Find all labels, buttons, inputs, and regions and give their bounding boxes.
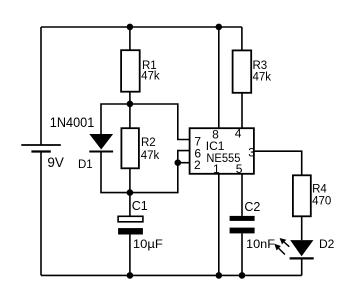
wire pin 3 net <box>254 151 302 175</box>
capacitor C2 plates <box>230 216 255 234</box>
svg-text:2: 2 <box>194 158 201 172</box>
LED D2 <box>290 240 314 258</box>
wire top rail <box>41 26 242 28</box>
wire pin 2 lead <box>178 162 190 164</box>
node junction bottom pin1 <box>216 272 223 279</box>
wire C1 bottom lead <box>129 235 131 276</box>
node junction R2/C1 <box>127 189 134 196</box>
wire R1 bottom lead <box>129 92 131 104</box>
node junction R1/R2/pin7 <box>127 101 134 108</box>
svg-text:R2: R2 <box>141 137 156 149</box>
wire bottom rail <box>41 274 302 276</box>
svg-text:1: 1 <box>213 162 220 176</box>
wire pin 5 / C2 top lead <box>241 174 243 216</box>
wire pin 1 lead <box>218 174 220 276</box>
svg-text:470: 470 <box>312 195 331 207</box>
wire C1 top lead <box>129 193 131 217</box>
wire D2 bottom lead <box>301 258 303 275</box>
wire R3 top lead <box>241 27 243 50</box>
svg-text:9V: 9V <box>47 154 64 170</box>
svg-text:10µF: 10µF <box>133 237 163 251</box>
svg-text:C1: C1 <box>132 199 148 213</box>
resistor R3 <box>233 50 252 92</box>
LED D2 emission arrow 2 <box>274 244 285 255</box>
resistor R4 <box>293 175 311 216</box>
svg-text:D2: D2 <box>319 237 335 251</box>
node junction bottom C2 <box>239 272 246 279</box>
svg-text:C2: C2 <box>244 200 260 214</box>
svg-text:3: 3 <box>248 146 255 160</box>
wire pin 8 lead <box>218 27 220 128</box>
node junction bottom C1 <box>127 272 134 279</box>
svg-text:47k: 47k <box>141 150 160 162</box>
svg-text:47k: 47k <box>253 71 272 83</box>
svg-text:4: 4 <box>235 127 242 141</box>
wire C2 bottom lead <box>241 233 243 275</box>
wire R2 top lead <box>129 104 131 128</box>
resistor R1 <box>121 50 140 91</box>
svg-text:47k: 47k <box>141 71 160 83</box>
wire R2 bottom lead <box>129 168 131 192</box>
wire R4 to D2 <box>301 216 303 240</box>
wire node pin7 net <box>101 104 190 140</box>
op-amp/IC U1 box NE555 <box>190 128 254 174</box>
LED D2 emission arrow 1 <box>280 238 290 247</box>
svg-text:10nF: 10nF <box>246 237 275 251</box>
resistor R2 <box>121 128 138 168</box>
svg-text:1N4001: 1N4001 <box>50 114 95 130</box>
wire pin6 net with D1 bottom lead <box>101 151 190 193</box>
svg-text:5: 5 <box>236 162 243 176</box>
capacitor C1 plates <box>118 216 143 234</box>
wire battery bottom lead <box>40 152 42 276</box>
svg-text:R4: R4 <box>312 184 327 196</box>
wire left rail (battery top lead) <box>40 27 42 145</box>
node junction top pin8 <box>216 24 223 31</box>
svg-text:8: 8 <box>212 127 219 141</box>
battery 9V <box>21 145 61 152</box>
node junction pin2/pin6 <box>175 159 182 166</box>
diode D1 <box>89 134 113 152</box>
svg-text:D1: D1 <box>78 159 93 171</box>
wire R1 top lead <box>129 27 131 50</box>
wire pin 4 lead <box>241 93 243 128</box>
node junction top R1 <box>127 24 134 31</box>
